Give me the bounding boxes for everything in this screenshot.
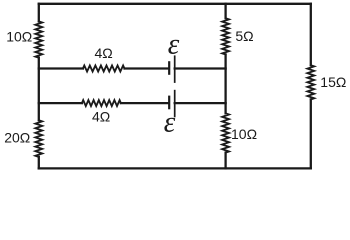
- svg-text:4Ω: 4Ω: [92, 109, 110, 125]
- svg-text:10Ω: 10Ω: [231, 126, 257, 142]
- svg-text:5Ω: 5Ω: [235, 28, 253, 44]
- svg-text:10Ω: 10Ω: [6, 29, 32, 45]
- svg-text:20Ω: 20Ω: [4, 130, 30, 146]
- svg-text:ε: ε: [164, 106, 176, 139]
- svg-text:ε: ε: [168, 28, 180, 61]
- svg-text:4Ω: 4Ω: [95, 45, 113, 61]
- svg-text:15Ω: 15Ω: [320, 74, 346, 90]
